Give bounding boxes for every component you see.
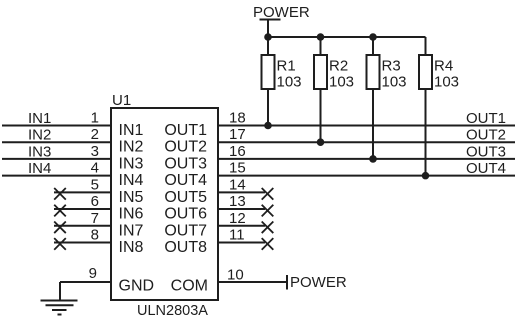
- svg-text:IN1: IN1: [28, 110, 51, 127]
- pin number 1: [91, 110, 99, 127]
- junction bus/R1: [264, 33, 272, 41]
- no-connect X pin 7: [54, 221, 66, 233]
- pin number 11: [229, 226, 245, 243]
- pin name OUT6: [164, 206, 207, 223]
- pin name OUT4: [164, 172, 207, 189]
- pin name GND: [119, 278, 155, 295]
- pin name IN5: [119, 189, 144, 206]
- svg-text:IN7: IN7: [119, 222, 144, 239]
- svg-text:17: 17: [229, 126, 246, 143]
- pin number 18: [229, 110, 246, 127]
- wire pin 16 (OUT3): [218, 143, 515, 160]
- pin number 9: [89, 265, 97, 282]
- svg-text:IN2: IN2: [28, 127, 51, 144]
- svg-text:10: 10: [227, 267, 244, 284]
- svg-text:IN2: IN2: [119, 139, 144, 156]
- no-connect X pin 13: [262, 205, 274, 217]
- pin name IN3: [119, 155, 144, 172]
- svg-text:POWER: POWER: [290, 274, 347, 291]
- svg-text:5: 5: [91, 176, 99, 193]
- wire power bus: [268, 36, 426, 38]
- wire pin 9 (GND): [60, 282, 111, 300]
- svg-text:6: 6: [91, 193, 99, 210]
- wire pin 15 (OUT4): [218, 160, 515, 177]
- pin number 12: [229, 210, 246, 227]
- wire pin 17 (OUT2): [218, 127, 515, 144]
- junction bus/R2: [317, 33, 325, 41]
- svg-text:OUT7: OUT7: [164, 222, 207, 239]
- svg-text:15: 15: [229, 160, 246, 177]
- no-connect X pin 12: [262, 221, 274, 233]
- svg-text:103: 103: [382, 74, 407, 91]
- pin name IN7: [119, 222, 144, 239]
- pin number 4: [91, 160, 99, 177]
- svg-text:OUT8: OUT8: [164, 239, 207, 256]
- junction R3/OUT3 row: [369, 155, 377, 163]
- svg-text:R4: R4: [434, 58, 453, 75]
- svg-text:IN1: IN1: [119, 122, 144, 139]
- svg-text:OUT1: OUT1: [164, 122, 207, 139]
- svg-text:103: 103: [277, 74, 302, 91]
- pin number 14: [229, 176, 246, 193]
- part name ULN2803A: [137, 303, 208, 319]
- pin name OUT7: [164, 222, 207, 239]
- svg-text:OUT3: OUT3: [164, 155, 207, 172]
- pin number 16: [229, 143, 246, 160]
- svg-text:14: 14: [229, 176, 246, 193]
- svg-text:IN8: IN8: [119, 239, 144, 256]
- pin name IN1: [119, 122, 144, 139]
- wire pin 5 (IN5): [54, 191, 111, 193]
- no-connect X pin 11: [262, 238, 274, 250]
- power port POWER (top): [253, 4, 310, 37]
- svg-text:R2: R2: [329, 58, 348, 75]
- svg-text:OUT3: OUT3: [466, 143, 506, 160]
- pin name IN8: [119, 239, 144, 256]
- pin number 17: [229, 126, 246, 143]
- power port POWER (right): [287, 274, 347, 291]
- svg-text:OUT2: OUT2: [466, 127, 506, 144]
- svg-text:IN4: IN4: [119, 172, 144, 189]
- svg-text:COM: COM: [171, 278, 208, 295]
- no-connect X pin 8: [54, 238, 66, 250]
- pin number 3: [91, 143, 99, 160]
- svg-text:11: 11: [229, 226, 245, 243]
- svg-text:OUT4: OUT4: [466, 160, 506, 177]
- wire pin 2 (IN2): [2, 127, 111, 144]
- wire pin 7 (IN7): [54, 225, 111, 227]
- svg-text:IN3: IN3: [28, 143, 51, 160]
- pin number 6: [91, 193, 99, 210]
- pin number 7: [91, 210, 99, 227]
- svg-text:POWER: POWER: [253, 4, 310, 21]
- pin number 15: [229, 160, 246, 177]
- svg-text:3: 3: [91, 143, 99, 160]
- svg-text:1: 1: [91, 110, 99, 127]
- ground symbol: [41, 301, 78, 315]
- svg-text:12: 12: [229, 210, 246, 227]
- pin name IN4: [119, 172, 144, 189]
- svg-text:13: 13: [229, 193, 246, 210]
- wire pin 11 (OUT8): [218, 241, 265, 243]
- svg-text:ULN2803A: ULN2803A: [137, 303, 208, 319]
- no-connect X pin 5: [54, 188, 66, 200]
- junction R1/OUT1 row: [264, 122, 272, 130]
- pin name COM: [171, 278, 208, 295]
- svg-text:OUT2: OUT2: [164, 139, 207, 156]
- svg-text:IN4: IN4: [28, 160, 51, 177]
- svg-text:OUT6: OUT6: [164, 206, 207, 223]
- svg-text:IN6: IN6: [119, 206, 144, 223]
- svg-text:R1: R1: [277, 58, 296, 75]
- wire pin 1 (IN1): [2, 110, 111, 127]
- pin name OUT3: [164, 155, 207, 172]
- svg-text:R3: R3: [382, 58, 401, 75]
- wire pin 14 (OUT5): [218, 191, 265, 193]
- svg-text:2: 2: [91, 126, 99, 143]
- svg-text:GND: GND: [119, 278, 155, 295]
- svg-text:18: 18: [229, 110, 246, 127]
- svg-text:OUT1: OUT1: [466, 110, 506, 127]
- svg-text:103: 103: [329, 74, 354, 91]
- svg-text:U1: U1: [112, 92, 131, 109]
- pin name OUT8: [164, 239, 207, 256]
- wire pin 10 (COM): [218, 281, 287, 283]
- wire pin 4 (IN4): [2, 160, 111, 177]
- wire pin 13 (OUT6): [218, 208, 265, 210]
- resistor R4 value 103: [419, 37, 459, 176]
- wire pin 3 (IN3): [2, 143, 111, 160]
- svg-text:16: 16: [229, 143, 246, 160]
- resistor R3 value 103: [367, 37, 407, 159]
- wire pin 6 (IN6): [54, 208, 111, 210]
- no-connect X pin 14: [262, 188, 274, 200]
- no-connect X pin 6: [54, 205, 66, 217]
- resistor R2 value 103: [314, 37, 354, 142]
- pin number 5: [91, 176, 99, 193]
- wire pin 8 (IN8): [54, 241, 111, 243]
- resistor R1 value 103: [262, 37, 302, 126]
- pin number 8: [91, 226, 99, 243]
- svg-text:8: 8: [91, 226, 99, 243]
- svg-text:OUT5: OUT5: [164, 189, 207, 206]
- junction R4/OUT4 row: [422, 172, 430, 180]
- pin number 13: [229, 193, 246, 210]
- svg-text:7: 7: [91, 210, 99, 227]
- svg-text:IN3: IN3: [119, 155, 144, 172]
- svg-text:9: 9: [89, 265, 97, 282]
- wire pin 12 (OUT7): [218, 225, 265, 227]
- pin name IN6: [119, 206, 144, 223]
- pin name OUT1: [164, 122, 207, 139]
- pin name IN2: [119, 139, 144, 156]
- svg-text:4: 4: [91, 160, 99, 177]
- pin number 10: [227, 267, 244, 284]
- pin name OUT5: [164, 189, 207, 206]
- svg-text:OUT4: OUT4: [164, 172, 207, 189]
- pin number 2: [91, 126, 99, 143]
- svg-text:IN5: IN5: [119, 189, 144, 206]
- pin name OUT2: [164, 139, 207, 156]
- junction R2/OUT2 row: [317, 138, 325, 146]
- designator U1: [112, 92, 131, 109]
- wire pin 18 (OUT1): [218, 110, 515, 127]
- svg-text:103: 103: [434, 74, 459, 91]
- junction bus/R3: [369, 33, 377, 41]
- IC U1 ULN2803A body: [111, 108, 218, 300]
